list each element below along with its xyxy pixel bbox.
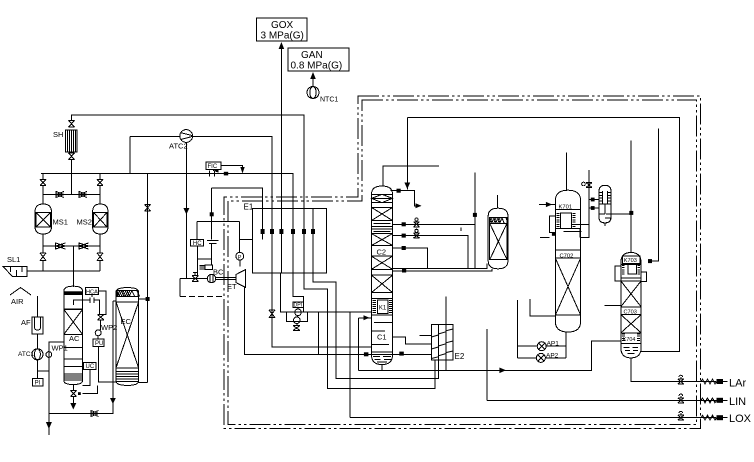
- wire x=130 riser: [129, 137, 131, 174]
- instrument HCA: [85, 288, 98, 296]
- svg-text:E2: E2: [455, 352, 465, 361]
- junction on double line: [402, 269, 406, 273]
- svg-text:NTC1: NTC1: [320, 97, 338, 104]
- wire MS2 inlet: [99, 174, 101, 180]
- adsorber MS2: [93, 204, 108, 234]
- junction below tab: [552, 232, 556, 235]
- product box GAN: [288, 48, 349, 72]
- signal HCA to valve: [91, 295, 93, 297]
- wire EC top right stub: [139, 298, 148, 300]
- wire WP2 to PU: [97, 336, 99, 339]
- wire ATC1 to PI: [36, 360, 38, 379]
- junction K703 top: [648, 259, 652, 263]
- wire PU drop to EC: [98, 347, 116, 383]
- adsorber MS1: [35, 204, 52, 234]
- svg-text:GAN: GAN: [301, 50, 323, 61]
- svg-text:MS2: MS2: [77, 218, 92, 227]
- wire MS1 inlet: [42, 174, 44, 180]
- svg-text:PI: PI: [35, 381, 41, 387]
- cold box boundary outer line: [224, 96, 701, 429]
- svg-text:AIR: AIR: [11, 297, 24, 306]
- hose LAr: [701, 379, 717, 384]
- junction EC top right: [146, 297, 150, 301]
- control valve BC inlet: [192, 273, 199, 282]
- valve on feed line: [269, 310, 275, 318]
- wire NTC1 to GAN: [312, 79, 314, 87]
- wire MS1 valve to vent header: [42, 261, 44, 272]
- turbine NTC1: [307, 87, 319, 99]
- column C2 shell: [372, 186, 393, 365]
- wire C703 left stub: [604, 305, 621, 307]
- arrow down onto air manifold: [240, 167, 244, 174]
- instrument HC: [190, 239, 203, 247]
- valve LIN outlet: [678, 394, 684, 403]
- wire E1 line 272 to C1 feed: [272, 273, 372, 347]
- svg-text:K704: K704: [623, 337, 636, 343]
- wire drop to capacitor x=211.7: [211, 188, 213, 240]
- valve crossover left: [56, 192, 64, 198]
- arrow into GOX box: [279, 42, 285, 49]
- wire E1 line 293 step: [293, 273, 304, 312]
- C2 packing X1: [372, 207, 393, 220]
- C2 packing X3: [372, 256, 393, 269]
- condenser K1: [372, 299, 393, 315]
- column EC: [116, 288, 140, 386]
- wire MS1 outlet: [42, 234, 44, 253]
- wire waste drop: [48, 414, 50, 436]
- wire MS2 valve to vent header: [99, 261, 101, 272]
- expander ET: [236, 270, 246, 288]
- wire K1 liquid stub with arrow: [359, 317, 372, 319]
- wire AP suction manifold: [517, 300, 566, 358]
- wire E1 pass x=293: [292, 209, 294, 273]
- pump WP1: [46, 352, 52, 358]
- instrument DPI: [293, 302, 304, 309]
- wire K703 loop riser: [650, 129, 658, 261]
- wire C1 to E2: [393, 337, 432, 344]
- svg-text:AF: AF: [21, 318, 31, 327]
- tick marks in E1: [261, 229, 265, 234]
- wire LOX tail: [723, 417, 728, 419]
- wire E1 pass x=262: [262, 209, 264, 240]
- wire HC link y=221.5: [197, 221, 239, 223]
- svg-text:AC: AC: [69, 334, 80, 343]
- svg-text:EC: EC: [121, 317, 132, 326]
- valve MS2 outlet: [97, 253, 103, 261]
- C2 packing X4: [372, 275, 393, 292]
- valve on branch 224: [414, 222, 420, 227]
- wire C2-adsorber double line: [393, 264, 493, 272]
- wire vent valve line x=589: [588, 170, 590, 238]
- arrow into C2 top: [404, 183, 410, 190]
- wire main air manifold y=173.5: [41, 174, 293, 209]
- cold box boundary inner line: [228, 100, 697, 425]
- shaft BC-ET: [216, 278, 236, 280]
- wire main liquid line y=370.3: [359, 341, 621, 370]
- pump WP2: [95, 330, 101, 336]
- wire surge loop top: [198, 258, 212, 260]
- wire EC top-left feed: [113, 301, 116, 400]
- svg-text:LAr: LAr: [729, 378, 746, 390]
- wire K701 inlet arrow stub: [539, 204, 555, 206]
- wire AC internal draw-off: [73, 300, 89, 305]
- svg-text:ET: ET: [227, 282, 237, 291]
- block LAr: [717, 379, 724, 384]
- break tick: [460, 228, 462, 232]
- control valve on AC draw-off: [90, 298, 94, 304]
- wire E1 pass x=304: [303, 209, 305, 273]
- wire C2 top gas stub: [383, 166, 439, 187]
- svg-text:FIC: FIC: [208, 164, 218, 170]
- svg-text:MS1: MS1: [53, 218, 68, 227]
- tab K703 left: [615, 266, 621, 281]
- valve waste header: [91, 411, 99, 417]
- signal HCA right loop: [98, 291, 105, 315]
- capacitor symbol: [207, 241, 219, 244]
- wire K1 feed y=312.1: [280, 273, 371, 312]
- wire gauge connects: [297, 307, 298, 325]
- svg-text:C702: C702: [560, 254, 574, 260]
- arrow on main line: [499, 368, 506, 374]
- condenser K701: [555, 209, 580, 228]
- valve water line: [145, 205, 151, 212]
- wire main liquid drop x=358.6: [358, 318, 360, 371]
- svg-text:HCA: HCA: [86, 289, 98, 295]
- svg-text:0.8 MPa(G): 0.8 MPa(G): [291, 61, 343, 72]
- valve product header left: [56, 243, 66, 249]
- wire LIN riser: [486, 329, 488, 400]
- C702 packing X: [555, 258, 580, 315]
- wire C2 branch y=248: [393, 248, 428, 268]
- wire LAr from C703 bottom: [631, 358, 716, 382]
- wire LOX line: [350, 417, 716, 419]
- junction on branch: [402, 234, 406, 238]
- wire E2 mid vertical: [445, 297, 447, 371]
- valve LOX outlet: [678, 411, 684, 420]
- wire header to AC column top: [73, 246, 75, 287]
- pump AP1: [537, 342, 546, 351]
- svg-text:WP2: WP2: [101, 323, 117, 332]
- svg-text:P: P: [238, 255, 242, 261]
- wire EC drop to waste header: [112, 400, 114, 414]
- wire adsorber top stub: [497, 195, 499, 208]
- wire E1 exit to P line: [239, 239, 252, 241]
- svg-text:K1: K1: [379, 306, 387, 312]
- wire valve to pump WP2: [100, 320, 102, 330]
- wire BC inlet y=278.6: [180, 278, 208, 280]
- svg-text:UC: UC: [86, 364, 95, 370]
- valve LAr outlet: [678, 375, 684, 384]
- column C702 shell: [555, 190, 580, 332]
- svg-text:ATC1: ATC1: [18, 351, 35, 358]
- C2 packing X2: [372, 234, 393, 246]
- arrow into C1: [364, 315, 370, 320]
- reboiler K704: [621, 333, 641, 344]
- svg-text:GOX: GOX: [271, 20, 294, 31]
- valve crossover right: [79, 192, 87, 198]
- wire E1 pass x=281.4 GOX: [280, 48, 282, 273]
- C2 band: [372, 269, 393, 275]
- wire E1 pass x=313 GAN: [312, 209, 314, 273]
- wire UC stubs: [82, 365, 85, 367]
- signal FIC to valve: [213, 170, 215, 172]
- compressor ATC1: [32, 349, 43, 360]
- wire drain to waste header: [72, 397, 74, 404]
- arrow on bleed line: [183, 208, 189, 215]
- wire C702 drop to pumps: [530, 299, 556, 316]
- wire MS2 outlet: [99, 234, 101, 253]
- wire C1 bottom to main line: [381, 365, 383, 371]
- junction C1 left: [364, 352, 369, 356]
- svg-text:LOX: LOX: [729, 413, 752, 425]
- C703 sump liquid: [624, 348, 639, 354]
- wire C2 top to K701 loop arrow: [406, 117, 408, 189]
- adsorber vessel: [488, 208, 508, 269]
- C1 trays: [372, 322, 393, 331]
- column C703 shell: [621, 253, 641, 358]
- wire BC drain left: [179, 279, 181, 297]
- valve on branch 236: [414, 233, 420, 238]
- svg-text:C1: C1: [377, 333, 387, 342]
- condenser K703: [621, 264, 641, 278]
- svg-text:SH: SH: [53, 130, 63, 139]
- heat exchanger SH: [66, 130, 78, 152]
- wire SH bottom to crossover: [71, 160, 73, 195]
- junction on branch: [402, 246, 406, 250]
- label C703: [621, 307, 641, 316]
- svg-text:AP2: AP2: [546, 353, 559, 360]
- wire UC bottom loop: [83, 369, 91, 385]
- wire valve to MS1: [42, 186, 44, 205]
- wire K1 drop x=318.6: [318, 312, 320, 354]
- arrow into K701: [546, 202, 552, 207]
- valve above SH: [69, 121, 75, 128]
- wire vaporizer bottom to C703 riser: [605, 214, 631, 226]
- junction on riser: [473, 213, 477, 217]
- wire product header y=246: [43, 245, 100, 247]
- label C2: [372, 246, 393, 257]
- svg-text:LIN: LIN: [729, 396, 746, 408]
- silencer SL1: [3, 267, 27, 277]
- valve AC drain: [71, 391, 77, 397]
- wire ET outlet to C1 y=354.3: [245, 288, 432, 355]
- compressor ATC2: [180, 130, 193, 143]
- valve product header right: [79, 243, 89, 249]
- svg-text:3 MPa(G): 3 MPa(G): [261, 31, 304, 42]
- block LIN: [717, 398, 724, 403]
- gauge circle 1: [295, 309, 302, 316]
- wire ATC1 link: [38, 370, 49, 372]
- wire E1 line 313 step to E2: [313, 273, 438, 379]
- exchanger E1: [252, 209, 326, 273]
- arrow into GAN box: [310, 72, 316, 79]
- handwheel vent valve: [582, 182, 586, 186]
- instrument PU: [93, 339, 104, 347]
- wire AC bottom drain: [72, 385, 74, 391]
- wire LOX drop x=350.2: [349, 312, 351, 418]
- wire ATC2 bleed down to BC: [185, 142, 187, 279]
- valve MS1 inlet: [40, 180, 46, 186]
- C2 tray band: [372, 221, 393, 227]
- junction AC wall: [78, 392, 81, 395]
- wire E2 left stub: [419, 335, 431, 337]
- wire E1 cold end line y=187.8: [212, 188, 263, 209]
- wire C2 branch y=224.3: [393, 223, 475, 225]
- tab K703 right: [641, 272, 646, 282]
- C703 packing X2: [621, 315, 641, 333]
- pump AP2: [536, 353, 545, 362]
- wire E1 line 304 step to y=388: [304, 273, 435, 388]
- wire C2 dome stub right: [391, 191, 421, 206]
- arrow EC drop: [110, 398, 116, 404]
- valve vent: [586, 183, 592, 188]
- wire EC bottom-right: [139, 382, 148, 384]
- wire ATC2 suction y=136.5: [130, 136, 180, 138]
- block LOX: [717, 415, 724, 420]
- wire riser x=474.9: [474, 173, 476, 269]
- wire C2 branch y=235.6: [393, 236, 469, 269]
- vaporizer vessel: [599, 185, 611, 223]
- svg-text:PU: PU: [95, 341, 103, 347]
- wire AC bottom hook: [83, 386, 98, 394]
- arrow waste down: [46, 422, 52, 429]
- wire HC to surge loop: [198, 244, 212, 259]
- wire K701 right tap: [572, 225, 590, 238]
- node AIR inlet arrow: [10, 288, 31, 296]
- valve under gauges: [293, 326, 300, 331]
- svg-text:K703: K703: [624, 258, 637, 264]
- C2 band lines: [372, 229, 393, 234]
- hose LIN: [701, 398, 717, 403]
- instrument FIC: [206, 162, 221, 170]
- tab K701 left: [549, 216, 555, 233]
- valve MS1 outlet: [40, 253, 46, 261]
- C1 sump liquid: [373, 357, 391, 363]
- signal dashed line: [180, 295, 222, 297]
- C703 packing X1: [621, 281, 641, 307]
- exchanger E2: [431, 324, 453, 360]
- wire draw-off down to WP2: [94, 300, 100, 314]
- C702 band: [555, 250, 580, 258]
- booster BC: [207, 274, 215, 282]
- valve MS2 inlet: [97, 180, 103, 186]
- control valve WP2 line: [98, 315, 104, 320]
- junction on drop: [210, 212, 214, 216]
- wire vaporizer taps: [589, 200, 599, 209]
- wire HC riser: [196, 222, 198, 240]
- wire filter to compressor: [36, 334, 38, 349]
- arrow stub right: [416, 203, 422, 208]
- C2 top section band: [372, 194, 393, 202]
- box under DPI gauges: [287, 312, 308, 321]
- signal FIC to arrow at x=242.5: [221, 166, 243, 169]
- heater on BC inlet: [200, 265, 213, 270]
- gauge P: [236, 252, 244, 260]
- wire ATC2 discharge to E1: [193, 137, 273, 209]
- valve below SH: [69, 153, 75, 160]
- junction on dome stub: [397, 189, 401, 193]
- wire C703 top riser: [630, 141, 632, 253]
- block on air manifold: [224, 172, 228, 176]
- wire crossover header y=194.5: [43, 194, 100, 196]
- column AC: [64, 286, 83, 384]
- junction taps: [591, 198, 595, 202]
- wire waste header y=413.5: [49, 413, 114, 415]
- wire under K701: [564, 231, 582, 233]
- wire C702 top stub: [565, 152, 567, 190]
- svg-text:SL1: SL1: [7, 255, 20, 264]
- wire LIN tail: [723, 399, 728, 401]
- svg-text:E1: E1: [244, 203, 254, 212]
- instrument UC: [84, 362, 97, 370]
- wire surge loop sides: [198, 259, 212, 275]
- wire LAr tail: [723, 381, 728, 383]
- junction on branch: [402, 222, 406, 226]
- wire LIN line: [487, 399, 716, 401]
- instrument PI: [33, 379, 44, 387]
- junction C1 right: [399, 352, 404, 356]
- label K703: [623, 256, 640, 264]
- svg-text:C2: C2: [377, 248, 387, 257]
- control valve on air manifold: [210, 171, 219, 177]
- wire E1 pass x=272: [271, 209, 273, 273]
- wire vent header y=271: [27, 270, 100, 272]
- wire water line x=147.6: [147, 174, 149, 383]
- wire P riser: [238, 222, 240, 267]
- junction on riser: [629, 211, 633, 215]
- filter AF: [32, 317, 43, 334]
- C1 lower trays: [372, 345, 393, 353]
- gauge circle 2: [294, 317, 301, 324]
- wire air header y=115 to E1: [72, 115, 305, 209]
- arrow AC drain down: [70, 403, 76, 410]
- wire K701 left stub: [540, 236, 549, 238]
- svg-text:ATC2: ATC2: [169, 142, 188, 151]
- hose LOX: [701, 415, 717, 420]
- product box GOX: [257, 18, 308, 42]
- wire nitrogen loop: [407, 117, 679, 351]
- wire valve to MS2: [99, 186, 101, 205]
- wire WP1 loop from AC: [49, 342, 64, 414]
- wire AIR to filter: [37, 296, 39, 317]
